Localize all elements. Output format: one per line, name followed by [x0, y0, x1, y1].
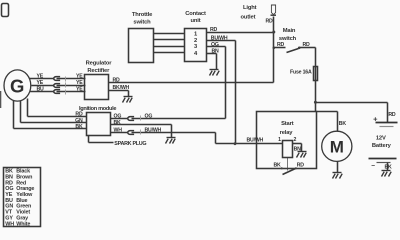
wire ignition WH output	[111, 127, 128, 133]
svg-text:WH: WH	[114, 127, 123, 133]
contact unit U3	[185, 11, 207, 62]
svg-text:BN: BN	[212, 48, 220, 54]
svg-text:Battery: Battery	[372, 143, 392, 149]
svg-text:RD: RD	[75, 112, 83, 118]
svg-text:BU/WH: BU/WH	[211, 35, 228, 41]
wire fuse to relay	[315, 81, 317, 112]
svg-text:RD: RD	[297, 163, 305, 169]
svg-text:outlet: outlet	[241, 15, 256, 21]
wire ignition OG output	[111, 114, 128, 120]
connector phase 1	[54, 74, 86, 82]
node battery feed	[314, 101, 317, 104]
svg-text:YE: YE	[76, 80, 83, 86]
svg-text:Rectifier: Rectifier	[87, 68, 110, 74]
svg-text:Fuse 16A: Fuse 16A	[290, 69, 312, 75]
wire relay to motor BK	[317, 112, 347, 132]
wire contact pin1 RD bus	[207, 27, 274, 33]
connector WH/BU-WH	[128, 127, 216, 134]
connector OG	[128, 114, 226, 121]
wire throttle-contact 2	[154, 39, 185, 41]
svg-text:M: M	[330, 138, 344, 157]
ground battery	[382, 171, 392, 177]
svg-text:Start: Start	[281, 121, 294, 127]
svg-text:BK: BK	[385, 164, 393, 170]
wire throttle-contact 1	[154, 33, 185, 35]
ignition module U2	[79, 106, 116, 135]
svg-text:RD: RD	[266, 19, 274, 25]
svg-text:YE: YE	[76, 87, 83, 93]
connector phase 2	[54, 80, 86, 88]
svg-text:BU: BU	[37, 87, 45, 93]
svg-text:unit: unit	[190, 18, 200, 24]
svg-text:YE: YE	[76, 74, 83, 80]
svg-text:OG: OG	[145, 114, 153, 120]
svg-text:Main: Main	[283, 28, 296, 34]
svg-text:−: −	[371, 162, 375, 169]
svg-text:Light: Light	[243, 5, 257, 11]
wire G to ignition RD	[28, 99, 87, 118]
svg-text:Regulator: Regulator	[86, 61, 113, 67]
svg-text:BK: BK	[114, 120, 122, 126]
ground ignition	[166, 138, 176, 144]
svg-text:BK: BK	[339, 121, 347, 127]
svg-text:Contact: Contact	[185, 11, 206, 17]
ground regulator	[123, 97, 133, 103]
node RD junction	[272, 31, 275, 34]
fuse F1 16A	[290, 67, 317, 81]
motor M1	[322, 131, 352, 161]
svg-text:G: G	[10, 75, 24, 96]
wire node to battery	[316, 103, 396, 123]
svg-text:Throttle: Throttle	[132, 12, 153, 18]
svg-text:BK: BK	[75, 124, 83, 130]
wire throttle-contact 4	[154, 52, 185, 54]
svg-text:12V: 12V	[376, 136, 386, 142]
wire contact pin2 BU/WH	[207, 35, 236, 143]
svg-text:YE: YE	[37, 74, 44, 80]
wire WH jog to relay	[216, 133, 283, 144]
svg-text:2: 2	[194, 38, 197, 44]
svg-text:switch: switch	[133, 20, 151, 26]
svg-text:BK/WH: BK/WH	[113, 85, 130, 91]
wire G phase 3 BU	[30, 87, 54, 93]
throttle switch S1	[129, 12, 154, 62]
wire RD junction down to regulator line	[273, 33, 275, 83]
start relay K1	[247, 112, 317, 175]
svg-text:OG: OG	[114, 114, 122, 120]
svg-text:2: 2	[293, 137, 296, 143]
svg-text:SPARK PLUG: SPARK PLUG	[114, 141, 146, 147]
svg-text:RD: RD	[277, 42, 285, 48]
svg-text:WH: WH	[5, 221, 14, 227]
ground motor	[333, 173, 343, 179]
svg-text:RD: RD	[303, 42, 311, 48]
svg-text:BU/WH: BU/WH	[247, 138, 264, 144]
generator G1	[4, 70, 31, 101]
scan artifact left edge	[0, 91, 1, 108]
svg-text:BU/WH: BU/WH	[145, 127, 162, 133]
wire regulator RD output	[109, 78, 274, 84]
svg-text:1: 1	[278, 137, 281, 143]
svg-text:RD: RD	[388, 112, 396, 118]
wire contact pin4 BN to ground	[207, 48, 220, 69]
svg-text:OG: OG	[211, 42, 219, 48]
svg-text:BK: BK	[273, 163, 281, 169]
svg-text:YE: YE	[37, 80, 44, 86]
wire G phase 2 YE	[32, 80, 54, 86]
svg-text:RD: RD	[210, 27, 218, 33]
ground relay coil BN	[297, 152, 307, 158]
wire G phase 1 YE	[30, 74, 54, 80]
connector phase 3	[54, 87, 86, 95]
light outlet P1	[2, 4, 277, 25]
wire G to ignition BK	[14, 101, 87, 131]
regulator rectifier U1	[85, 61, 113, 100]
svg-text:GN: GN	[75, 118, 83, 124]
svg-text:RD: RD	[113, 78, 121, 84]
main switch S2	[273, 28, 316, 52]
wire outlet stem	[273, 17, 275, 33]
wire regulator BK/WH to ground	[109, 85, 130, 96]
wire ignition BK to ground	[111, 120, 172, 138]
wire motor to ground	[337, 162, 339, 173]
svg-text:Ignition module: Ignition module	[79, 106, 116, 112]
wire contact pin3 OG	[207, 42, 226, 119]
spark plug lead	[89, 136, 147, 147]
wire switch to fuse	[315, 48, 317, 67]
svg-text:White: White	[16, 221, 30, 227]
wire G to ignition GN	[21, 101, 87, 124]
svg-text:relay: relay	[280, 130, 294, 136]
node BU/WH junction	[234, 142, 237, 145]
legend color code box	[4, 168, 41, 228]
wire throttle-contact 3	[154, 46, 185, 48]
battery BT1 12V	[369, 115, 398, 171]
ground contact unit	[210, 70, 220, 76]
